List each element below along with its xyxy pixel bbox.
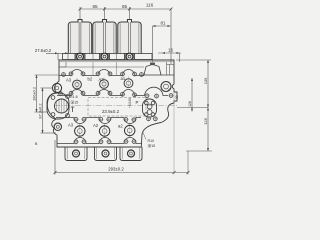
mounting feet base line xyxy=(57,146,141,148)
mid upper wavy line xyxy=(57,87,168,95)
flange nut 3 xyxy=(125,53,135,60)
top face scalloped line xyxy=(59,70,144,76)
svg-text:81: 81 xyxy=(161,21,166,26)
casting joint lines xyxy=(93,62,117,75)
bolt row A xyxy=(61,72,66,77)
svg-text:128: 128 xyxy=(188,101,192,107)
upper-left corner step xyxy=(59,62,66,67)
top right step xyxy=(167,62,175,75)
svg-text:100±0.2: 100±0.2 xyxy=(31,87,36,101)
svg-text:139: 139 xyxy=(203,78,208,85)
flange nut 2 xyxy=(100,53,110,60)
svg-text:+0.048: +0.048 xyxy=(128,98,132,108)
spool cap 3 xyxy=(118,20,141,54)
svg-text:23.9±0.2: 23.9±0.2 xyxy=(102,109,120,114)
left boss circle xyxy=(52,83,61,92)
flange nut 1 xyxy=(75,53,85,60)
svg-text:a1: a1 xyxy=(121,76,126,81)
dim 100±0.2 left xyxy=(35,75,60,112)
port A2 top xyxy=(100,80,109,89)
valve body outline xyxy=(47,60,177,147)
svg-text:116: 116 xyxy=(146,2,154,7)
dim 293 bottom xyxy=(55,92,188,175)
svg-text:R1.6: R1.6 xyxy=(70,95,78,99)
dim 81 xyxy=(153,26,171,62)
note R10 depth 15 xyxy=(143,133,146,140)
left ear oval xyxy=(47,93,69,119)
bolt row B xyxy=(58,91,63,96)
svg-text:a2: a2 xyxy=(118,124,123,129)
foot 3 xyxy=(120,147,142,161)
center dashed pocket xyxy=(88,98,146,117)
svg-text:P: P xyxy=(136,100,139,105)
svg-text:A2: A2 xyxy=(99,77,105,82)
port centerlines xyxy=(77,77,130,139)
svg-text:A3: A3 xyxy=(66,78,72,83)
hatched ring right xyxy=(161,82,171,92)
bolt row C xyxy=(73,117,78,122)
svg-text:128: 128 xyxy=(203,118,208,125)
right ear stadium xyxy=(143,99,157,117)
foot 1 xyxy=(65,147,87,161)
foot 2 xyxy=(95,147,117,161)
svg-text:A2: A2 xyxy=(93,123,99,128)
svg-text:b2: b2 xyxy=(88,77,93,82)
svg-text:27.8±0.2: 27.8±0.2 xyxy=(35,48,52,53)
dim ticks xyxy=(79,8,173,11)
stadium lower diamonds xyxy=(146,116,151,121)
port B3 bottom xyxy=(75,126,85,136)
center line xyxy=(54,105,177,107)
bolt row D xyxy=(73,139,78,144)
port A3 top xyxy=(73,80,82,89)
depth arrow T xyxy=(71,107,75,112)
spool cap 1 xyxy=(68,20,91,54)
dim 87.3±0.2 left xyxy=(41,88,57,133)
svg-text:30: 30 xyxy=(175,95,179,99)
svg-text:65: 65 xyxy=(92,4,98,9)
dim 128 right inner xyxy=(177,78,208,112)
spool cap 2 xyxy=(93,20,116,54)
bottom wavy line xyxy=(57,138,141,144)
cap flange strip xyxy=(63,54,153,60)
port A1 top xyxy=(124,79,133,88)
dim 139 right outer xyxy=(176,60,212,151)
svg-text:深15: 深15 xyxy=(71,99,79,104)
top dimension chain line xyxy=(80,7,171,64)
svg-text:65: 65 xyxy=(122,4,128,9)
top face inner line xyxy=(59,66,144,68)
svg-text:A3: A3 xyxy=(68,123,74,128)
svg-text:深15: 深15 xyxy=(148,143,156,148)
svg-text:293±0.2: 293±0.2 xyxy=(108,166,124,171)
trapezoid boss xyxy=(144,63,161,75)
svg-text:R10: R10 xyxy=(148,139,155,143)
port B2 bottom xyxy=(99,126,109,136)
left lug hole xyxy=(54,123,61,130)
svg-text:16: 16 xyxy=(168,48,173,53)
port B1 bottom xyxy=(125,125,135,135)
dim 16 xyxy=(158,53,181,62)
mid lower wavy line xyxy=(56,118,141,124)
svg-text:87.3±0.2: 87.3±0.2 xyxy=(37,103,42,118)
